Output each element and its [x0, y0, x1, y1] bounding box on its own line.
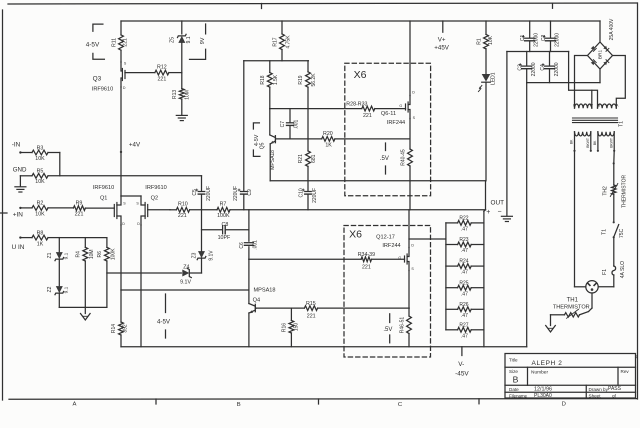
wire R8 to Z network	[48, 237, 59, 239]
resistor R2	[32, 201, 48, 218]
wire center tap	[569, 52, 598, 108]
svg-text:V+: V+	[438, 37, 446, 44]
svg-text:4.75K: 4.75K	[285, 35, 291, 49]
marker 9V	[190, 24, 206, 59]
connector AC plug	[586, 281, 598, 293]
svg-text:PL30A0: PL30A0	[534, 393, 552, 399]
svg-text:R16: R16	[282, 323, 288, 332]
wire R6 to Z4 row	[107, 272, 181, 274]
svg-text:Number: Number	[531, 370, 548, 376]
svg-text:C2: C2	[541, 34, 547, 41]
wire Q6-11 drain crossing	[409, 181, 411, 210]
svg-text:U IN: U IN	[12, 244, 25, 251]
svg-text:10K: 10K	[488, 35, 494, 45]
title block Size label	[509, 369, 518, 374]
label Q3 IRF9610	[92, 86, 113, 92]
sheet top border	[8, 3, 637, 4]
box X6 top	[345, 63, 431, 195]
title block Date label	[509, 387, 519, 392]
transistor Q6-11	[399, 96, 415, 120]
capacitor C3	[517, 52, 537, 83]
svg-text:R12: R12	[157, 64, 167, 70]
label Q5	[259, 142, 265, 149]
svg-text:Title: Title	[509, 358, 518, 363]
sheet bottom border	[9, 398, 637, 401]
resistor R17	[272, 21, 291, 61]
wire supply mid row	[507, 51, 569, 53]
wire source bus to OUT corner	[484, 181, 486, 212]
transformer primary lead 2	[590, 132, 592, 152]
thermistor TH2	[602, 175, 627, 208]
svg-text:−: −	[498, 209, 502, 216]
svg-text:100K: 100K	[111, 248, 117, 260]
capacitor C7	[280, 109, 300, 139]
sheet left border	[2, 10, 4, 400]
svg-text:R17: R17	[272, 37, 278, 46]
resistor R14	[111, 290, 129, 347]
wire bank right bus	[483, 211, 485, 346]
transformer primary lead 1	[573, 132, 575, 152]
wire lower gate row	[249, 258, 405, 260]
title block Number label	[531, 370, 548, 376]
resistor R1	[476, 21, 494, 74]
wire supply V- line	[526, 83, 528, 347]
svg-text:Drawn by: Drawn by	[589, 387, 609, 392]
svg-text:R18: R18	[260, 75, 266, 84]
node U IN	[12, 236, 32, 250]
svg-text:D: D	[122, 222, 125, 226]
wire plug to primary lead1	[575, 286, 586, 288]
svg-text:9.1V: 9.1V	[180, 279, 191, 285]
svg-text:56.2K: 56.2K	[311, 73, 317, 87]
svg-text:BK: BK	[570, 139, 574, 144]
svg-text:IRF244: IRF244	[387, 120, 405, 126]
box X6 bottom	[344, 226, 431, 358]
svg-text:C3: C3	[517, 64, 523, 71]
svg-text:T1: T1	[601, 229, 607, 235]
capacitor C9	[233, 61, 253, 210]
svg-text:OUT: OUT	[491, 199, 505, 206]
svg-text:R2: R2	[37, 201, 44, 207]
pin label secondary B1	[573, 103, 576, 107]
svg-text:IRF9610: IRF9610	[92, 86, 113, 92]
svg-text:C5: C5	[192, 189, 198, 196]
svg-text:C1: C1	[520, 34, 526, 41]
marker .5V top	[380, 143, 389, 174]
resistor R22	[446, 216, 484, 233]
svg-text:A: A	[73, 402, 77, 408]
svg-text:.001: .001	[293, 120, 299, 130]
svg-text:.001: .001	[252, 240, 258, 250]
svg-text:Z4: Z4	[183, 264, 189, 270]
svg-text:Z1: Z1	[47, 252, 53, 258]
title block size B	[513, 374, 519, 384]
wire bridge minus to V- row	[599, 69, 601, 83]
svg-text:22000: 22000	[534, 33, 540, 47]
svg-text:Date: Date	[509, 387, 519, 392]
svg-text:Filename: Filename	[509, 394, 528, 399]
svg-text:THERMISTOR: THERMISTOR	[553, 304, 590, 310]
svg-text:R7: R7	[220, 202, 227, 208]
svg-text:D: D	[123, 86, 126, 90]
title block date value	[534, 387, 552, 393]
svg-text:22000: 22000	[531, 62, 537, 76]
svg-text:R27: R27	[459, 322, 468, 328]
svg-text:IRF9610: IRF9610	[145, 185, 166, 191]
svg-text:9.1V: 9.1V	[208, 250, 214, 261]
svg-text:R25: R25	[459, 280, 468, 286]
svg-text:R40-45: R40-45	[400, 149, 406, 166]
sheet right border	[637, 3, 639, 399]
wire 0V line	[506, 52, 508, 216]
wire Q1 drain node row	[121, 289, 249, 291]
svg-text:Q3: Q3	[93, 76, 102, 83]
svg-text:10M: 10M	[184, 90, 190, 100]
svg-text:221: 221	[363, 113, 372, 119]
title block Title label	[509, 358, 518, 363]
transformer primary lead 4	[613, 132, 615, 152]
svg-text:100K: 100K	[217, 213, 230, 219]
zener Z4	[180, 264, 191, 285]
transformer T1 core	[573, 118, 618, 123]
svg-text:R34-39: R34-39	[358, 252, 375, 258]
svg-text:220UF: 220UF	[206, 186, 212, 201]
transistor Q12-17	[398, 248, 414, 272]
marker 4-5V lower	[157, 294, 171, 338]
wire R10 to node	[190, 209, 217, 211]
wire LED1 to source bus	[485, 82, 487, 181]
resistor R10	[176, 202, 189, 219]
svg-text:Z3: Z3	[191, 252, 197, 258]
svg-text:BR1: BR1	[598, 50, 604, 60]
pin label secondary B2	[598, 103, 601, 107]
svg-text:R3: R3	[37, 145, 44, 151]
label Q6-11 IRF244	[387, 120, 405, 126]
capacitor C2	[541, 21, 561, 52]
wire R2 to R9	[48, 207, 73, 209]
title block frame	[505, 354, 636, 399]
node V- -45V	[455, 347, 469, 378]
svg-text:PASS: PASS	[608, 386, 622, 392]
svg-text:GND: GND	[13, 167, 27, 174]
wire color label BK2	[593, 140, 597, 145]
zone label A	[73, 402, 77, 408]
resistor R9	[73, 200, 85, 217]
node OUT plus	[486, 209, 490, 216]
transformer T1 primary winding 2	[598, 132, 614, 136]
svg-text:R20: R20	[323, 131, 333, 137]
wire color label WT1	[586, 138, 590, 148]
transistor Q1	[114, 196, 126, 226]
node GND	[13, 167, 32, 176]
thermal switch T1 75C	[601, 222, 625, 238]
label Q12-17	[376, 235, 395, 241]
zener Z1	[47, 238, 69, 286]
wire drain tee to bank	[409, 238, 446, 240]
wire Q5 emitter to source bus	[269, 144, 271, 181]
svg-text:C8: C8	[222, 222, 229, 228]
zone label C	[398, 402, 403, 408]
svg-text:.47: .47	[461, 227, 468, 233]
svg-text:+IN: +IN	[13, 211, 24, 218]
label LED1	[490, 72, 496, 85]
label Q6-11	[381, 111, 396, 117]
svg-text:Sheet: Sheet	[589, 394, 602, 399]
node -IN	[12, 141, 32, 153]
resistor R15	[304, 301, 317, 320]
wire supply V- row	[527, 82, 600, 84]
svg-text:C4: C4	[540, 64, 546, 71]
title block Filename label	[509, 394, 528, 399]
svg-text:220UF: 220UF	[312, 188, 318, 203]
svg-text:R14: R14	[111, 324, 117, 333]
label +4V	[129, 142, 141, 149]
svg-text:TH2: TH2	[602, 186, 608, 196]
wire R20 to source line	[335, 138, 410, 140]
wire Q5 base row	[276, 138, 322, 140]
svg-text:R1: R1	[476, 38, 482, 45]
title block of label	[612, 394, 617, 399]
label X6 bottom	[349, 229, 362, 241]
wire plug earth pin	[589, 293, 593, 312]
wire lead4 to TH2	[613, 151, 615, 185]
svg-text:Q12-17: Q12-17	[376, 235, 395, 241]
svg-text:.5V: .5V	[383, 327, 392, 333]
capacitor C5	[192, 176, 212, 210]
transformer primary lead 3	[597, 132, 599, 152]
svg-text:22000: 22000	[554, 33, 560, 47]
wire F1 to plug	[598, 275, 614, 287]
svg-text:+45V: +45V	[434, 45, 449, 52]
sheet bottom tick C/D	[478, 399, 480, 404]
wire R9 to Q1 gate	[85, 207, 114, 209]
svg-text:220UF: 220UF	[233, 186, 239, 201]
svg-text:R4: R4	[76, 251, 82, 258]
title block filename value	[534, 393, 552, 399]
svg-text:BKWT: BKWT	[586, 138, 590, 148]
wire Z4 to Z3	[190, 272, 201, 274]
bridge BR1	[588, 42, 613, 69]
svg-text:.47: .47	[461, 270, 468, 276]
wire main row to C6	[248, 210, 250, 241]
resistor R7	[217, 202, 230, 219]
wire Q4 emitter to V- rail	[248, 313, 250, 347]
svg-text:1.5K: 1.5K	[273, 74, 279, 85]
resistor R11	[111, 21, 128, 62]
svg-text:G: G	[398, 256, 401, 260]
svg-text:10PF: 10PF	[218, 235, 231, 241]
wire Z network top row	[59, 237, 107, 239]
diode LED1	[478, 74, 490, 92]
wire Q2 drain to V- rail	[140, 225, 142, 347]
svg-text:Rev: Rev	[621, 369, 630, 374]
svg-text:221: 221	[178, 213, 187, 219]
wire diff pair source interconnect	[121, 195, 141, 197]
svg-text:.5V: .5V	[380, 156, 389, 162]
transistor Q4	[249, 304, 256, 314]
ground under Z network	[81, 307, 91, 320]
svg-text:X6: X6	[354, 69, 367, 81]
transformer T1 secondary winding 2	[598, 104, 617, 108]
svg-text:R22: R22	[459, 216, 468, 222]
wire Q3 drain to diff pair	[120, 87, 122, 196]
wire V- rail	[121, 346, 527, 348]
label Q4 MPSA18	[253, 287, 275, 293]
wire C6 to gate row	[248, 247, 250, 259]
resistor R5	[32, 169, 48, 186]
svg-text:V-: V-	[458, 361, 464, 368]
label OUT	[491, 199, 505, 206]
svg-text:+: +	[486, 209, 490, 216]
sheet bottom tick B/C	[318, 399, 320, 404]
svg-text:D: D	[411, 243, 414, 247]
wire source bus	[270, 180, 485, 182]
ground under R13	[176, 115, 187, 120]
svg-text:IRF244: IRF244	[382, 243, 400, 249]
resistor R40-45	[400, 119, 412, 181]
fuse F1	[602, 261, 626, 278]
wire R12 to Z5 node	[169, 72, 182, 74]
svg-text:MPSA18: MPSA18	[253, 287, 275, 293]
svg-text:Q2: Q2	[151, 195, 158, 201]
title block ALEPH 2	[532, 360, 563, 367]
resistor R16	[282, 308, 300, 347]
wire bridge AC right	[613, 56, 626, 108]
svg-text:G: G	[399, 104, 402, 108]
svg-text:221: 221	[307, 314, 316, 320]
wire primary lead1 to plug	[574, 151, 576, 287]
svg-text:LED1: LED1	[490, 72, 496, 85]
resistor R8	[32, 230, 48, 247]
resistor R19	[298, 61, 317, 139]
sheet top border tick 2	[552, 3, 554, 8]
svg-text:221: 221	[362, 264, 371, 270]
ground at TH1	[546, 326, 556, 333]
marker 4-5V top-left	[86, 24, 105, 59]
node OUT minus	[498, 209, 502, 216]
svg-text:Q1: Q1	[100, 195, 107, 201]
svg-text:22000: 22000	[554, 62, 560, 76]
resistor R28-R33	[346, 101, 375, 119]
zone label B	[237, 402, 241, 408]
label Q2	[151, 195, 158, 201]
ground at GND input	[15, 176, 26, 192]
label Q1	[100, 195, 107, 201]
wire R15 to source bus	[318, 307, 410, 309]
capacitor C10	[298, 166, 318, 209]
sheet left border tick	[0, 212, 7, 214]
wire C8 row	[202, 229, 249, 231]
node V+ +45V	[434, 21, 449, 52]
wire bank left bus	[445, 223, 447, 330]
zener Z2	[47, 286, 69, 307]
svg-text:Q5: Q5	[259, 142, 265, 149]
wire Z network bottom row	[59, 306, 107, 308]
svg-text:25A 400V: 25A 400V	[609, 18, 615, 40]
wire Q2 gate to main row	[148, 209, 170, 211]
resistor R24	[446, 259, 484, 276]
svg-text:F1: F1	[602, 269, 608, 275]
wire TH2 to T1 switch	[613, 195, 615, 224]
capacitor C6	[239, 240, 258, 250]
capacitor C8	[218, 222, 231, 241]
wire R7 to OUT node	[230, 209, 486, 211]
transistor Q12-17 drain	[409, 210, 414, 248]
svg-text:9V: 9V	[200, 37, 206, 44]
svg-text:C10: C10	[298, 188, 304, 197]
svg-text:R26: R26	[459, 302, 468, 308]
svg-text:T1: T1	[618, 121, 624, 127]
svg-text:.47: .47	[461, 333, 468, 339]
svg-text:W: W	[589, 103, 593, 107]
marker .5V bottom	[383, 314, 392, 343]
resistor R26	[446, 302, 484, 319]
capacitor C4	[540, 52, 560, 83]
marker 4-5V mid	[253, 123, 260, 156]
resistor R27	[446, 322, 484, 339]
svg-text:R28-R33: R28-R33	[346, 101, 367, 107]
svg-text:4A SLO: 4A SLO	[620, 261, 626, 278]
wire GND row	[48, 175, 202, 177]
sheet bottom tick A/B	[155, 399, 157, 404]
svg-text:Z2: Z2	[47, 286, 53, 292]
wire upper gate row	[270, 108, 406, 110]
resistor R13	[172, 73, 190, 115]
svg-text:R6: R6	[97, 251, 103, 258]
wire color label BK1	[570, 139, 574, 144]
wire Q1 drain down	[120, 225, 122, 290]
transformer T1 primary winding 1	[575, 132, 591, 136]
label Q12-17 IRF244	[382, 243, 400, 249]
svg-text:221: 221	[157, 76, 166, 82]
label BR1	[598, 50, 604, 60]
thermistor TH1	[553, 297, 590, 318]
zener Z5	[170, 21, 192, 73]
resistor R34-39	[358, 252, 375, 270]
svg-text:D: D	[137, 222, 140, 226]
svg-text:10M: 10M	[89, 249, 95, 259]
resistor R21	[298, 139, 317, 167]
svg-text:C9: C9	[247, 189, 253, 196]
svg-text:IRF9610: IRF9610	[93, 185, 114, 191]
svg-text:10K: 10K	[35, 179, 45, 185]
svg-text:681: 681	[311, 154, 317, 163]
label Q1 IRF9610	[93, 185, 114, 191]
svg-text:1K: 1K	[325, 142, 332, 148]
node +IN	[13, 207, 32, 219]
svg-text:R15: R15	[306, 301, 316, 307]
svg-text:4-5V: 4-5V	[157, 318, 171, 325]
title block Drawn by	[589, 387, 609, 392]
label BR1 rating	[609, 18, 615, 40]
wire R3 to GND row	[48, 153, 60, 176]
svg-text:1K: 1K	[37, 241, 44, 247]
svg-text:ALEPH 2: ALEPH 2	[532, 360, 563, 367]
svg-text:B: B	[237, 402, 241, 408]
svg-text:R10: R10	[178, 202, 188, 208]
zone number 4	[635, 355, 638, 361]
svg-text:12/1/96: 12/1/96	[534, 387, 552, 393]
wire Q4 base row	[256, 307, 304, 309]
svg-text:R23: R23	[459, 237, 468, 243]
transistor Q2	[136, 196, 147, 226]
svg-text:R8: R8	[37, 230, 44, 236]
label T1	[618, 121, 624, 127]
wire V+ rail	[121, 20, 600, 22]
title block Rev label	[621, 369, 630, 374]
resistor R6	[97, 238, 116, 308]
wire bridge AC left	[575, 56, 588, 108]
